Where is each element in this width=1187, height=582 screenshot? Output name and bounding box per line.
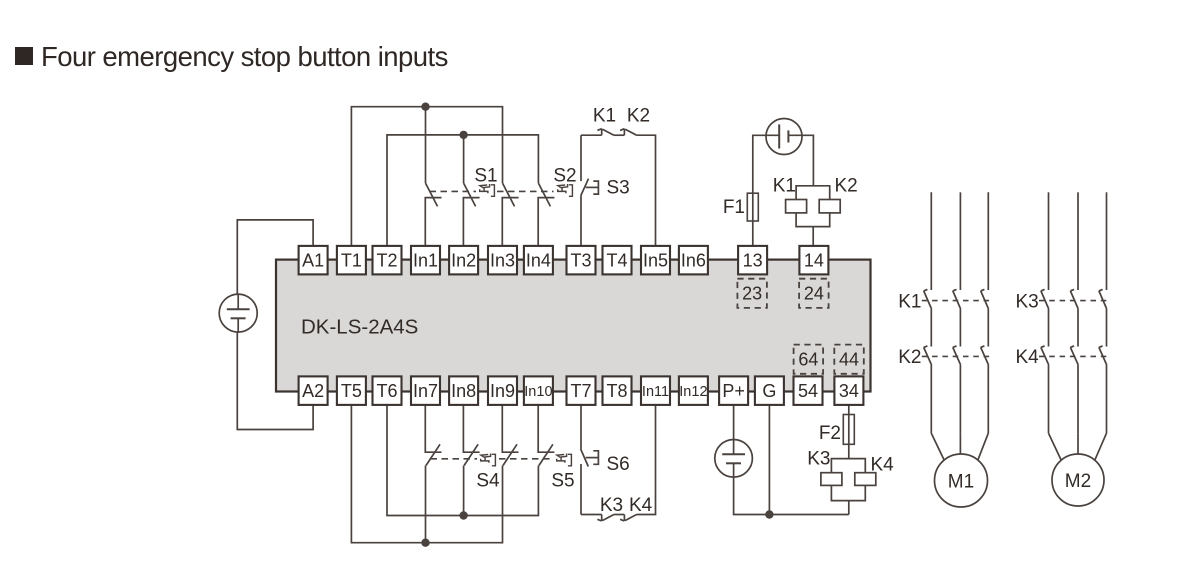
wire rail1 down to In1 contact [425,107,427,183]
auxiliary dashed terminal 44 [834,345,864,374]
terminal P+ [719,376,748,405]
wire In7 contact down to rail3 [425,466,427,543]
wire motor phase M21 [1048,192,1050,433]
safety relay body DK-LS-2A4S [276,260,871,392]
svg-text:K2: K2 [835,176,858,197]
svg-text:54: 54 [798,381,818,401]
svg-text:K1: K1 [773,176,796,197]
K4 NO contact (bottom path) [620,515,637,522]
motor M1 [935,454,988,507]
wire A1 to left supply top [237,220,313,294]
contactor K3 pole at x=1078 [1070,289,1078,309]
wire supply bottom rail to coils [734,477,849,514]
relay coil network K1 K2 [786,186,841,248]
wire K2 contact to In5 [637,135,656,248]
K1 NO contact (top path) [597,129,614,136]
svg-text:In8: In8 [451,381,476,401]
svg-text:K3: K3 [807,449,830,470]
terminal In10 [524,376,553,405]
svg-text:K1: K1 [898,291,921,312]
terminal T7 [567,376,596,405]
wire motor phase M22 [1077,192,1079,433]
wire rail T1 to In3 contact [351,107,502,248]
junction dot rail4/In8 [459,511,467,519]
svg-text:64: 64 [798,350,818,370]
svg-text:K3: K3 [600,495,623,516]
wire K1 to K2 contact [614,134,625,136]
svg-text:T6: T6 [376,381,397,401]
wire supply to K1K2 coils [788,135,813,186]
terminal 54 [794,376,823,405]
svg-text:K2: K2 [627,106,650,127]
mechanical link dashes K1 [922,300,990,302]
terminal T4 [603,246,632,275]
svg-text:S1: S1 [474,166,497,187]
terminal T5 [337,376,366,405]
junction dot rail1/In1 [421,103,429,111]
wire motor phase M23 [1106,192,1108,433]
svg-text:23: 23 [742,284,762,304]
top right DC supply source [766,119,802,155]
svg-text:S4: S4 [476,471,500,492]
svg-text:In1: In1 [413,251,438,271]
S5 e-stop mushroom symbol [557,454,572,466]
svg-text:S3: S3 [607,178,630,199]
svg-text:In7: In7 [413,381,438,401]
svg-text:In9: In9 [490,381,515,401]
mechanical link dashes K2 [922,355,990,357]
junction dot rail2/In2 [459,131,467,139]
svg-text:T1: T1 [341,251,362,271]
S2 NC contact b (In4) [538,183,554,248]
relay coil network K3 K4 [821,459,876,515]
terminal In8 [449,376,478,405]
terminal In5 [641,246,670,275]
motor M2 [1052,454,1104,506]
K2 NO contact (top path) [620,129,637,136]
svg-text:34: 34 [839,381,859,401]
mechanical link dashes S4-S5 [499,458,554,460]
svg-text:In2: In2 [451,251,476,271]
S2 e-stop mushroom symbol [558,184,573,196]
title bullet square [15,47,33,65]
wire phases into motor M1 [931,433,988,460]
svg-text:In6: In6 [681,251,706,271]
svg-text:K2: K2 [898,347,921,368]
S4 e-stop mushroom symbol [481,454,496,466]
fuse F2 [843,415,854,445]
mechanical link dashes K3 [1039,300,1108,302]
svg-text:G: G [762,381,776,401]
mechanical link dashes K4 [1039,355,1108,357]
terminal A1 [299,246,328,275]
wire S3 to K1 contact [581,134,602,136]
svg-text:F2: F2 [819,423,841,444]
svg-text:S5: S5 [551,471,574,492]
svg-text:T7: T7 [570,381,591,401]
mechanical link dashes S1 [430,190,477,192]
S4 NC contact b (In8) [463,403,479,466]
terminal In9 [488,376,517,405]
S5 NC contact a (In9) [502,403,518,466]
terminal T2 [373,246,402,275]
svg-text:T3: T3 [570,251,591,271]
auxiliary dashed terminal 64 [794,345,824,374]
wire K3 to K4 contact [614,514,625,516]
svg-text:S2: S2 [553,166,576,187]
svg-text:In4: In4 [526,251,551,271]
terminal In2 [449,246,478,275]
svg-text:In12: In12 [679,384,707,400]
junction dot rail3/In7 [421,539,429,547]
terminal T8 [603,376,632,405]
svg-text:F1: F1 [723,197,745,218]
svg-text:24: 24 [804,284,824,304]
contactor K1 pole at x=931.3 [924,289,932,309]
contactor K4 pole at x=1048.5 [1041,346,1049,365]
svg-text:M1: M1 [948,472,974,493]
svg-text:T5: T5 [341,381,362,401]
S5 NC contact b (In10) [538,403,554,466]
wire left supply bottom to A2 [237,332,313,430]
contactor K1 pole at x=960.4 [953,289,961,309]
svg-text:In11: In11 [642,384,669,400]
svg-text:44: 44 [839,350,859,370]
terminal G [755,376,784,405]
S1 NC contact b (In2) [463,183,479,248]
wire motor phase M11 [930,192,932,433]
fuse F1 inner wire [752,193,754,221]
wire motor phase M13 [987,192,989,433]
fuse F2 inner wire [848,415,850,445]
wire rail T6 to In10 contact [387,403,538,516]
wire F2 to K3K4 coils [848,444,850,458]
wire rail T5 to In9 contact [351,403,502,543]
mechanical link dashes S1-S2 [497,190,554,192]
bottom DC supply source [715,440,753,478]
svg-text:K4: K4 [871,455,895,476]
wire rail2 down to In2 contact [463,135,465,183]
K3 NO contact (bottom path) [597,515,614,522]
contactor K2 pole at x=931.3 [924,346,932,365]
svg-text:K4: K4 [1015,347,1039,368]
contactor K3 pole at x=1106.5 [1099,289,1107,309]
terminal A2 [299,376,328,405]
contactor K4 pole at x=1078 [1070,346,1078,365]
svg-text:K4: K4 [629,495,653,516]
svg-text:A1: A1 [302,251,324,271]
terminal 34 [834,376,863,405]
svg-text:S6: S6 [607,454,630,475]
svg-text:14: 14 [804,251,824,271]
junction dot G/bottom rail [765,510,773,518]
wire motor phase M12 [959,192,961,433]
svg-text:T2: T2 [376,251,397,271]
S1 NC contact a (In1) [425,183,441,248]
svg-text:Four emergency stop button inp: Four emergency stop button inputs [41,41,448,72]
terminal T6 [373,376,402,405]
terminal 14 [799,246,828,275]
terminal In12 [679,376,708,405]
wire rail T2 to In4 contact [387,135,538,248]
contactor K2 pole at x=960.4 [953,346,961,365]
S2 NC contact a (In3) [502,183,518,248]
terminal In11 [641,376,670,405]
wire T7 down to S6 [580,403,582,449]
terminal 13 [738,246,767,275]
contactor K1 pole at x=988.3 [981,289,989,309]
fuse F1 [747,193,758,221]
wire In8 contact down to rail4 [463,466,465,516]
mechanical link dashes S4 [431,458,478,460]
svg-text:A2: A2 [302,381,324,401]
svg-text:T8: T8 [606,381,627,401]
S1 e-stop mushroom symbol [480,184,495,196]
svg-text:DK-LS-2A4S: DK-LS-2A4S [301,315,418,338]
wire S6 to K3 contact [581,514,602,516]
contactor K2 pole at x=988.3 [981,346,989,365]
terminal In4 [524,246,553,275]
left DC supply source [219,294,257,332]
wire T3 up to S3 [580,196,582,248]
svg-text:K3: K3 [1015,291,1038,312]
auxiliary dashed terminal 23 [737,279,767,308]
wire G down to bottom rail [768,403,770,515]
svg-text:M2: M2 [1065,471,1091,492]
wire 13 up through F1 to supply [753,135,779,248]
svg-text:13: 13 [743,251,763,271]
contactor K3 pole at x=1048.5 [1041,289,1049,309]
S6 NO pushbutton contact [581,449,599,515]
terminal T3 [567,246,596,275]
svg-text:P+: P+ [722,381,745,401]
wire 34 down to F2 [848,403,850,415]
auxiliary dashed terminal 24 [799,279,829,308]
svg-text:K1: K1 [593,106,616,127]
svg-text:In5: In5 [643,251,668,271]
svg-text:T4: T4 [606,251,627,271]
wire phases into motor M2 [1049,433,1107,460]
svg-text:In10: In10 [524,384,552,400]
S4 NC contact a (In7) [425,403,441,466]
terminal In3 [488,246,517,275]
S3 NO pushbutton contact [581,135,599,195]
terminal In7 [411,376,440,405]
terminal T1 [337,246,366,275]
terminal In6 [679,246,708,275]
terminal In1 [411,246,440,275]
wire P+ down to supply [733,403,735,440]
svg-text:In3: In3 [490,251,515,271]
wire K4 contact to In11 [637,403,656,515]
contactor K4 pole at x=1106.5 [1099,346,1107,365]
